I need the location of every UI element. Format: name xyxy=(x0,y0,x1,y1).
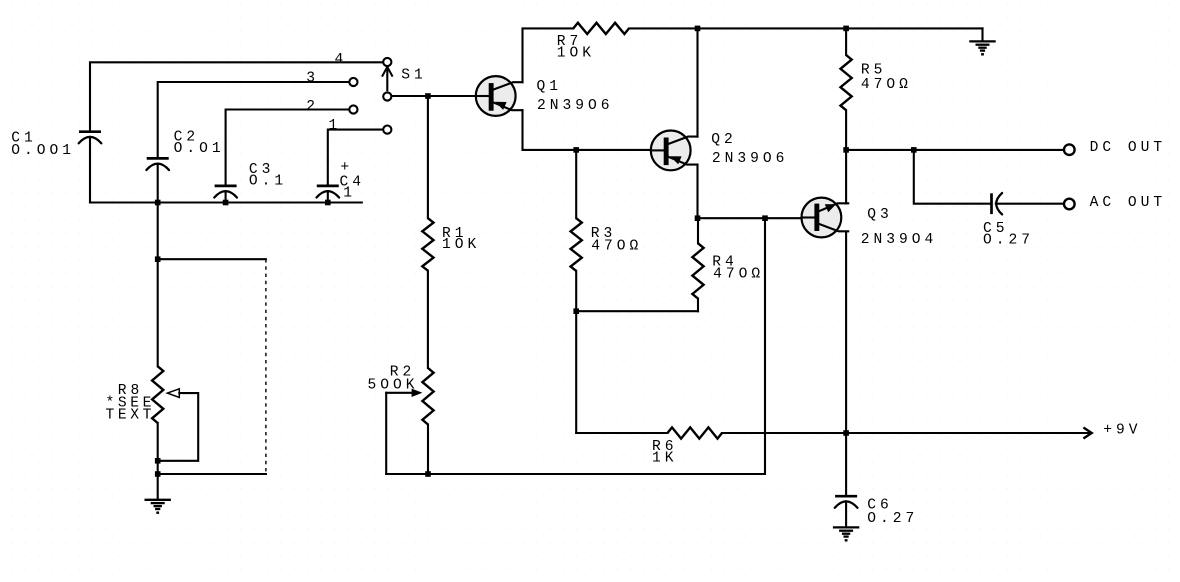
terminal AC OUT xyxy=(1064,195,1166,211)
wire: C1 bottom xyxy=(89,137,91,203)
svg-text:2N39O6: 2N39O6 xyxy=(537,98,614,114)
svg-text:Q1: Q1 xyxy=(537,79,563,95)
S1 position label 1 xyxy=(329,118,342,134)
resistor R5 470Ω xyxy=(841,55,912,110)
svg-text:O.O1: O.O1 xyxy=(174,141,225,157)
wire: +9V rail left of R6 xyxy=(576,432,667,434)
svg-text:TEXT: TEXT xyxy=(106,408,155,424)
junction: R3/R4 bottom link xyxy=(573,308,579,314)
svg-text:47OΩ: 47OΩ xyxy=(713,267,764,283)
S1 position label 4 xyxy=(335,52,348,68)
wire: C3 bottom xyxy=(225,191,227,202)
junction: collector on +9V rail xyxy=(843,430,849,436)
wire: C4 bottom xyxy=(327,191,329,202)
resistor R2 5OOK (pot) xyxy=(368,364,434,424)
wire: C6 to ground xyxy=(845,501,847,527)
junction: R8 box top xyxy=(155,256,161,262)
capacitor C6 0.27 xyxy=(835,496,918,527)
junction: bottom wire at left rail xyxy=(155,471,161,477)
wire: to Q3 base xyxy=(698,217,802,219)
svg-text:+9V: +9V xyxy=(1103,423,1141,439)
junction: AC branch tap xyxy=(911,147,917,153)
transistor Q3 2N3904 xyxy=(801,198,848,238)
svg-text:Q3: Q3 xyxy=(867,207,893,223)
capacitor C4 (polarized) xyxy=(317,160,366,202)
ground (top right) xyxy=(969,41,995,55)
svg-text:5OOK: 5OOK xyxy=(368,378,419,394)
wire: S1 pin4 to C1 top xyxy=(90,62,383,130)
junction: Q2 collector on rail xyxy=(695,26,701,32)
wire: to R4 top xyxy=(697,218,699,243)
wire: S1 pin3 to C2 top xyxy=(158,82,350,157)
junction: R2 bottom on bottom wire xyxy=(425,471,431,477)
wire: Q2 emitter down xyxy=(696,165,698,219)
svg-text:4: 4 xyxy=(335,52,348,68)
wire: rail to R5 xyxy=(845,28,847,55)
resistor R8 *SEE TEXT (pot) xyxy=(106,366,180,423)
junction: R5 / Q3 emitter / DC OUT xyxy=(843,147,849,153)
wire: dashed boundary bottom xyxy=(158,473,266,475)
junction: Q2 emitter / R4 node xyxy=(695,215,701,221)
wire: DC OUT line xyxy=(846,149,1064,151)
wire: Q2 collector to top rail xyxy=(696,28,698,136)
svg-text:2N39O6: 2N39O6 xyxy=(712,151,789,167)
resistor R6 1K xyxy=(652,427,722,466)
svg-text:O.27: O.27 xyxy=(983,233,1034,249)
junction: R5 on rail xyxy=(843,26,849,32)
capacitor C1 xyxy=(11,131,101,159)
wire: left rail down to R8 xyxy=(157,203,159,367)
ground (bottom left) xyxy=(145,500,171,514)
wire: Q1 emitter to Q2 base xyxy=(523,110,652,150)
wire: R2 bottom xyxy=(427,425,429,475)
wire: R3 bottom down to +9V rail xyxy=(575,271,577,433)
wire: S1 common to Q1 base xyxy=(392,95,477,97)
wire: to R3 xyxy=(575,150,577,218)
wire: R3-R4 bottom link xyxy=(576,310,698,312)
S1 position label 3 xyxy=(306,71,319,87)
junction: Q3 base / feedback column xyxy=(762,215,768,221)
svg-text:47OΩ: 47OΩ xyxy=(861,77,912,93)
junction: wiper loop return xyxy=(155,458,161,464)
wire: R4 bottom xyxy=(697,299,699,312)
capacitor C3 xyxy=(214,162,287,198)
resistor R4 470Ω xyxy=(692,243,764,298)
svg-text:47OΩ: 47OΩ xyxy=(591,238,642,254)
label Q3 xyxy=(867,207,893,223)
wire: capacitor common bus xyxy=(90,201,362,203)
svg-text:Q2: Q2 xyxy=(711,132,737,148)
svg-text:3: 3 xyxy=(306,71,319,87)
svg-text:1: 1 xyxy=(329,118,342,134)
junction: node at Q1 base / R1 top xyxy=(425,93,431,99)
resistor R3 470Ω xyxy=(571,218,643,271)
wire: Q3 emitter up xyxy=(845,150,847,203)
label 2N3904 (Q3) xyxy=(861,232,938,248)
wire: R5 bottom to DC node xyxy=(845,110,847,150)
wire: bottom return wire xyxy=(386,218,765,474)
wire: AC branch to C5 xyxy=(914,150,990,204)
wire: rail to ground stem xyxy=(981,28,983,41)
svg-text:1: 1 xyxy=(343,186,356,202)
wire: S1 pin1 to C4 top xyxy=(328,130,383,185)
label Q1 xyxy=(537,79,563,95)
resistor R7 10K xyxy=(557,23,629,62)
svg-text:O.OO1: O.OO1 xyxy=(11,143,75,159)
svg-text:S1: S1 xyxy=(401,67,427,83)
svg-text:DC OUT: DC OUT xyxy=(1090,140,1167,156)
wire: R8 bottom to ground xyxy=(157,423,159,500)
capacitor C2 xyxy=(146,130,224,170)
svg-text:AC OUT: AC OUT xyxy=(1090,195,1167,211)
svg-text:O.27: O.27 xyxy=(867,511,918,527)
wire: S1 pin2 to C3 top xyxy=(226,110,350,185)
wire: +9V rail xyxy=(722,432,1090,434)
transistor Q1 2N3906 xyxy=(475,76,522,116)
svg-text:O.1: O.1 xyxy=(249,173,287,189)
wire: C5 to AC OUT xyxy=(996,203,1064,205)
ground (C6) xyxy=(833,527,859,541)
label 2N3906 (Q1) xyxy=(537,98,614,114)
dashed outline (R8 alternate) xyxy=(265,259,267,474)
wire: C2 bottom xyxy=(157,164,159,203)
svg-text:2N39O4: 2N39O4 xyxy=(861,232,938,248)
svg-text:1K: 1K xyxy=(652,450,678,466)
junction: C4 on bus xyxy=(325,200,331,206)
junction: C3 on bus xyxy=(223,200,229,206)
capacitor C5 0.27 xyxy=(983,193,1034,249)
S1 position label 2 xyxy=(306,99,319,115)
+9V supply arrow xyxy=(1083,423,1141,439)
svg-text:1OK: 1OK xyxy=(557,45,595,61)
wire: to dashed boundary top xyxy=(158,258,266,260)
resistor R1 10K xyxy=(422,218,480,271)
wire: to R1 top xyxy=(427,96,429,218)
svg-text:2: 2 xyxy=(306,99,319,115)
junction: C2 on bus xyxy=(155,200,161,206)
wire: R8 wiper loop xyxy=(158,393,199,461)
wire: Q1 collector to top rail xyxy=(523,28,574,82)
wire: Q3 collector down to C6 xyxy=(845,232,847,497)
junction: R3 top node xyxy=(573,147,579,153)
svg-text:1OK: 1OK xyxy=(442,237,480,253)
wire: R1 to R2 xyxy=(427,271,429,368)
label Q2 xyxy=(711,132,737,148)
wire: R2 wiper down xyxy=(385,393,387,474)
wire: top rail xyxy=(629,27,983,29)
terminal DC OUT xyxy=(1064,140,1166,156)
label 2N3906 (Q2) xyxy=(712,151,789,167)
transistor Q2 2N3906 xyxy=(650,131,697,171)
switch S1 xyxy=(349,58,426,134)
